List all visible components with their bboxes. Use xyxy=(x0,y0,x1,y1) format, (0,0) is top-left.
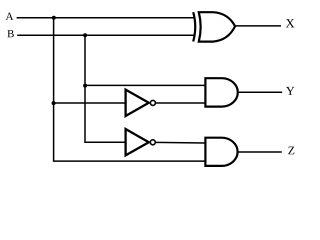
wire NOT2 output to AND2 xyxy=(155,141,205,144)
output label Z xyxy=(288,147,294,155)
AND gate U4 (output Y) xyxy=(205,78,237,106)
AND gate U5 (output Z) xyxy=(205,138,237,166)
junction dot on A line xyxy=(52,16,56,20)
wire AND1 output Y xyxy=(238,91,283,93)
XOR gate U1 body xyxy=(199,12,235,41)
wire NOT1 input from A xyxy=(54,102,127,104)
junction dot on B line xyxy=(83,33,87,37)
wire A vertical branch down to bottom AND input xyxy=(54,18,206,161)
wire B vertical branch to NOT2 input xyxy=(85,35,127,142)
wire AND2 output Z xyxy=(237,151,281,153)
wire B horizontal to XOR input xyxy=(17,34,194,36)
wire NOT1 output to AND1 xyxy=(156,102,206,104)
NOT gate U2 triangle (inverter for A) xyxy=(126,90,149,116)
output label Y xyxy=(286,87,294,95)
input label B xyxy=(7,30,13,37)
XOR gate U1 input arc xyxy=(193,12,195,41)
input label A xyxy=(6,13,14,20)
wire XOR output X xyxy=(235,25,281,27)
wire AND1 top input from B xyxy=(85,84,205,86)
wire A horizontal to XOR input xyxy=(17,17,194,19)
NOT gate U2 bubble xyxy=(150,100,155,105)
junction dot on B vertical xyxy=(83,84,87,88)
output label X xyxy=(286,19,295,27)
junction dot on A vertical xyxy=(52,101,56,105)
NOT gate U3 triangle (inverter for B) xyxy=(126,129,149,155)
NOT gate U3 bubble xyxy=(150,140,155,145)
